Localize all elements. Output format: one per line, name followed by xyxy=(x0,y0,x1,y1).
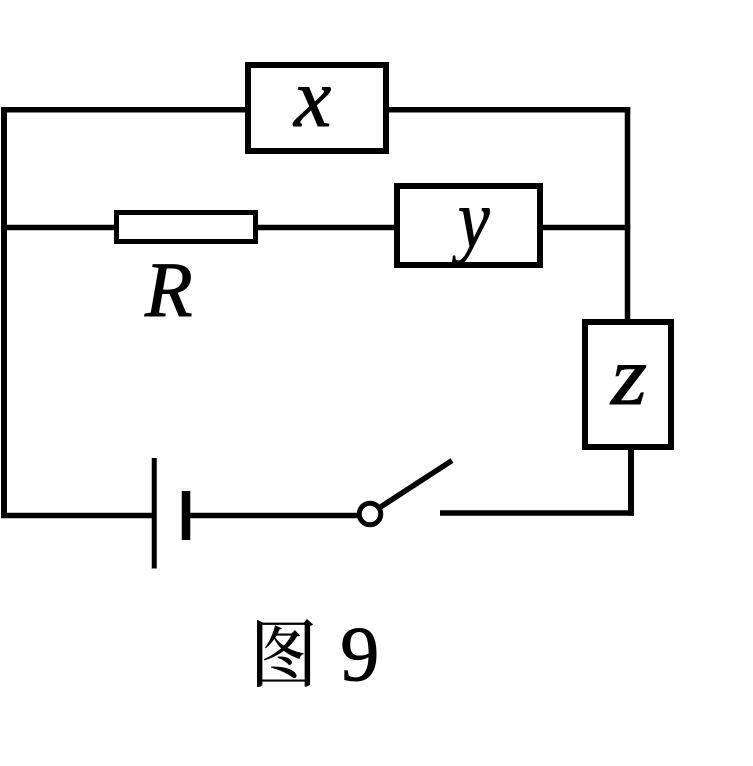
wire: battery to switch xyxy=(188,513,362,519)
caption: character 图 xyxy=(257,619,313,687)
resistor R xyxy=(117,213,256,242)
wire: middle rail segment 2 xyxy=(255,225,397,231)
wire: top rail left segment xyxy=(1,107,247,113)
wire: bottom right segment xyxy=(440,510,634,516)
wire: middle rail segment 1 xyxy=(1,225,117,231)
wire: right rail upper xyxy=(625,107,631,322)
wire: below box z xyxy=(628,447,634,516)
switch lever xyxy=(381,461,453,508)
svg-text:x: x xyxy=(292,52,331,145)
wire: middle rail segment 3 xyxy=(540,225,630,231)
wire: bottom left segment xyxy=(1,513,154,519)
svg-text:9: 9 xyxy=(340,610,379,697)
svg-text:y: y xyxy=(452,173,490,266)
svg-text:R: R xyxy=(144,246,193,333)
wire: left rail xyxy=(1,107,7,518)
battery short plate xyxy=(182,491,191,540)
wire: top rail right segment xyxy=(387,107,630,113)
box y xyxy=(397,186,540,265)
battery long plate xyxy=(152,458,157,569)
svg-text:z: z xyxy=(610,330,647,423)
box x xyxy=(248,65,386,151)
switch pivot circle xyxy=(359,503,381,525)
box z xyxy=(585,322,671,447)
